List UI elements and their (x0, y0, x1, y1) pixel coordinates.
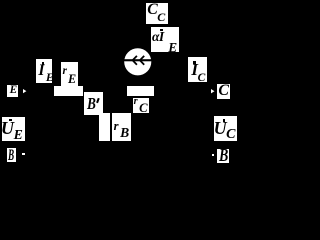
text Bprime (87, 95, 96, 112)
text I_E main (38, 63, 44, 79)
text r_B main (114, 120, 119, 133)
text r_C main (134, 97, 138, 107)
resistor r_B body (99, 113, 110, 141)
U_E dot (dot above letter) (9, 119, 12, 122)
wire arrow at node E (23, 89, 28, 94)
text node E (10, 85, 18, 96)
current label I_C box (188, 57, 207, 82)
resistor r_E value label box (61, 62, 78, 85)
I_C dot (dot above letter) (193, 61, 196, 64)
text r_E main (63, 66, 67, 77)
U_C dot (dot above letter) (223, 119, 226, 122)
node B' label box (84, 92, 104, 115)
alpha-i dot (dot above letter) (160, 29, 162, 31)
text r_E sub (68, 73, 76, 85)
prime mark of node B' (96, 97, 99, 102)
text U_C sub (226, 128, 235, 142)
wire stub at node B (bottom left) (22, 153, 25, 156)
text I_C sub (198, 73, 206, 85)
current source value label box (alpha i_E) (151, 27, 180, 53)
I_E dot (dot above letter) (42, 62, 45, 65)
resistor r_B value label box (112, 113, 131, 141)
text U_C main (214, 119, 227, 137)
node E label box (7, 85, 18, 97)
text node C (218, 83, 229, 99)
text alpha (152, 30, 159, 43)
wire arrow at node C (211, 89, 216, 94)
text node B right (219, 147, 228, 165)
text U_E main (1, 119, 14, 137)
text alpha-sub-E (168, 41, 177, 54)
current label I_E box (36, 59, 52, 83)
node B label box (bottom left) (7, 148, 16, 162)
voltage label U_C box (214, 116, 238, 141)
node C label box (217, 84, 230, 99)
capacitor C_C label box (146, 3, 168, 24)
text I_E sub (46, 72, 54, 84)
resistor r_E body (54, 86, 83, 96)
text C_C sub (157, 11, 165, 23)
text r_C sub (139, 102, 147, 115)
text C_C main (147, 2, 157, 18)
node B label box (bottom right) (217, 149, 230, 163)
voltage label U_E box (2, 117, 26, 141)
text alpha-i (159, 30, 164, 44)
text r_B sub (120, 126, 129, 140)
wire dot at node B (bottom right) (212, 154, 214, 156)
resistor r_C value label box (133, 98, 150, 113)
text node B left (8, 148, 14, 163)
text U_E sub (14, 128, 23, 142)
current source (circle with double left-pointing arrow) (124, 48, 152, 76)
text I_C main (191, 62, 198, 79)
resistor r_C body (127, 86, 154, 96)
